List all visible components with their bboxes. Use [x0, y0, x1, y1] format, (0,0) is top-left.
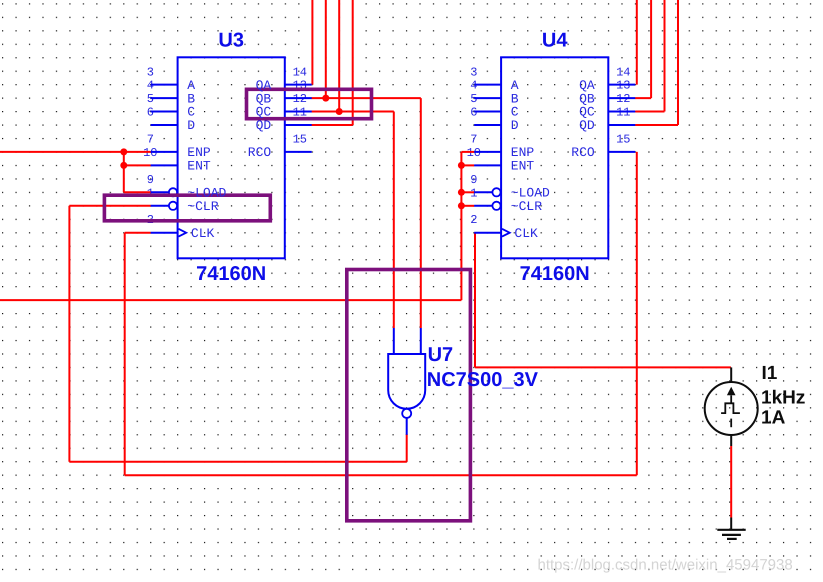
U4 pin name label A — [511, 78, 519, 93]
wire: U3 QC right and down to U7 NAND input A, branch up to top edge — [312, 0, 394, 328]
svg-text:7: 7 — [147, 133, 154, 147]
U3 active-low pin stub ~LOAD with inversion bubble — [151, 188, 177, 196]
U7 input pin B stub from U3 QB — [420, 328, 422, 354]
svg-text:14: 14 — [293, 65, 307, 79]
I1 dashed shaft segment — [730, 419, 732, 428]
svg-text:D: D — [187, 118, 195, 133]
U3 output pin stub QB — [285, 97, 312, 99]
svg-text:1kHz: 1kHz — [761, 388, 805, 409]
U4 input pin stub A — [474, 84, 501, 86]
U7 value label NC7S00_3V — [427, 369, 539, 391]
wire: left supply rail into U3 ENP (pin 10 row) — [0, 151, 151, 153]
U4 pin number 1 (left) — [470, 186, 477, 200]
U4 pin stub ENP — [474, 151, 501, 153]
svg-text:NC7S00_3V: NC7S00_3V — [427, 369, 539, 391]
U3 output pin stub QC — [285, 111, 312, 113]
U4 output pin stub QC — [608, 111, 635, 113]
svg-text:I1: I1 — [762, 363, 778, 384]
junction at U3 QB branch — [322, 95, 329, 102]
U4 pin name label RCO — [571, 145, 595, 160]
svg-text:~CLR: ~CLR — [511, 199, 542, 214]
svg-text:QD: QD — [256, 118, 272, 133]
U3 input pin stub D — [151, 124, 178, 126]
svg-text:ENT: ENT — [187, 159, 211, 174]
svg-text:ENT: ENT — [511, 159, 535, 174]
U4 pin name label ~CLR — [511, 199, 542, 214]
U3 pin name label QB — [256, 91, 272, 106]
U4 pin name label QB — [579, 91, 595, 106]
U4 pin number 13 (right) — [616, 79, 630, 93]
U3 pin name label C — [187, 105, 195, 120]
svg-text:U4: U4 — [542, 30, 568, 52]
U4 output pin stub RCO — [608, 151, 635, 153]
U4 reference designator label — [542, 30, 568, 52]
U4 pin name label ~LOAD — [511, 186, 550, 201]
svg-text:D: D — [511, 118, 519, 133]
U4 pin name label QC — [579, 105, 595, 120]
U4 output pin stub QD — [608, 124, 635, 126]
U4 pin name label QA — [579, 78, 595, 93]
I1 reference designator label — [762, 363, 778, 384]
svg-text:RCO: RCO — [571, 145, 595, 160]
U3 CLK pin stub with clock edge triangle — [151, 229, 187, 237]
U4 pin number 12 (right) — [616, 92, 630, 106]
U3 pin number 10 (left) — [143, 146, 157, 160]
wire: U3 QD up to top edge — [312, 0, 353, 125]
U4 pin number 3 (left) — [470, 65, 477, 79]
U3 pin number 7 (left) — [147, 133, 154, 147]
wire: U4 QD up to top edge — [635, 0, 678, 125]
svg-text:7: 7 — [470, 133, 477, 147]
junction at U4 ~LOAD branch — [458, 189, 465, 196]
U4 pin name label B — [511, 91, 519, 106]
U4 pin number 4 (left) — [470, 79, 477, 93]
U3 pin number 2 (left) — [147, 213, 154, 227]
U3 pin name label QA — [256, 78, 272, 93]
U4 pin number 7 (left) — [470, 133, 477, 147]
svg-text:14: 14 — [616, 65, 630, 79]
U3 pin number 9 (left) — [147, 173, 154, 187]
junction at U4 ENT branch — [458, 162, 465, 169]
U4 input pin stub D — [474, 124, 501, 126]
U3 pin name label B — [187, 91, 195, 106]
watermark text — [538, 557, 793, 574]
U4 pin number 5 (left) — [470, 92, 477, 106]
svg-text:~CLR: ~CLR — [187, 199, 218, 214]
U4 output pin stub QB — [608, 97, 635, 99]
svg-text:RCO: RCO — [248, 145, 272, 160]
U4 output pin stub QA — [608, 84, 635, 86]
U3 pin number 15 (right) — [293, 133, 307, 147]
U4 input pin stub C — [474, 111, 501, 113]
wire: branch into U3 ~LOAD — [124, 191, 151, 193]
svg-text:15: 15 — [293, 133, 307, 147]
wire: branch into U3 ENT — [124, 164, 151, 166]
U4 pin number 2 (left) — [470, 213, 477, 227]
U3 pin name label CLK — [191, 226, 215, 241]
svg-text:CLK: CLK — [514, 226, 538, 241]
wire: U3 QB right and down to U7 NAND input B, branch up to top edge — [312, 0, 421, 328]
wire: U3 QA up to top edge — [311, 0, 313, 85]
U4 pin number 9 (left) — [470, 173, 477, 187]
junction at U3 ENP branch — [120, 148, 127, 155]
wire: I1 bottom terminal to ground — [730, 446, 732, 518]
U7 reference designator label — [428, 344, 454, 366]
current source I1 circle body — [705, 382, 758, 435]
U3 active-low pin stub ~CLR with inversion bubble — [151, 202, 177, 210]
IC U3 74160N body outline — [178, 57, 285, 258]
U3 pin name label D — [187, 118, 195, 133]
svg-text:74160N: 74160N — [520, 263, 590, 285]
U3 pin number 3 (left) — [147, 65, 154, 79]
svg-text:U7: U7 — [428, 344, 454, 366]
svg-text:QD: QD — [579, 118, 595, 133]
svg-text:https://blog.csdn.net/weixin_4: https://blog.csdn.net/weixin_45947938 — [538, 557, 793, 574]
U3 pin number 13 (right) — [293, 79, 307, 93]
U3 pin name label ENT — [187, 159, 211, 174]
U3 input pin stub A — [151, 84, 178, 86]
U4 active-low pin stub ~LOAD with inversion bubble — [474, 188, 500, 196]
svg-text:U3: U3 — [218, 30, 244, 52]
U3 input pin stub B — [151, 97, 178, 99]
U4 pin name label C — [511, 105, 519, 120]
svg-text:1A: 1A — [761, 407, 786, 428]
junction at U3 ENT branch — [120, 162, 127, 169]
wire: U4 QA up to top edge — [636, 0, 638, 85]
I1 value label 1A — [761, 407, 786, 428]
U7 input pin A stub from U3 QC — [393, 328, 395, 354]
selection box around NAND gate U7 — [347, 270, 471, 521]
U4 pin number 15 (right) — [616, 133, 630, 147]
wire: U4 RCO down-left-up into U3 CLK — [125, 152, 637, 475]
U4 CLK pin stub with clock edge triangle — [474, 229, 510, 237]
IC U4 74160N body outline — [501, 57, 608, 258]
wire: U7 NAND output feedback into U3 ~CLR — [69, 206, 406, 462]
U4 pin name label CLK — [514, 226, 538, 241]
U3 pin number 5 (left) — [147, 92, 154, 106]
U4 pin name label QD — [579, 118, 595, 133]
wire: clock net from I1 to U4 CLK — [475, 233, 731, 368]
svg-text:3: 3 — [147, 65, 154, 79]
U4 pin name label D — [511, 118, 519, 133]
selection box around U3 QB/QC output pins — [247, 89, 372, 118]
svg-text:9: 9 — [470, 173, 477, 187]
U3 pin number 11 (right) — [293, 106, 307, 120]
U4 pin name label ENT — [511, 159, 535, 174]
U3 pin name label A — [187, 78, 195, 93]
wire: vertical branch x=123.8 from U3 ENP row down to U3 ~LOAD row — [123, 152, 125, 192]
svg-text:74160N: 74160N — [196, 263, 266, 285]
U3 pin name label RCO — [248, 145, 272, 160]
I1 current direction arrow — [727, 387, 736, 403]
U7 output pin stub — [406, 418, 408, 435]
U7 output inversion bubble — [402, 409, 411, 418]
U3 output pin stub QD — [285, 124, 312, 126]
U4 pin stub ENT — [474, 164, 501, 166]
U4 pin name label ENP — [511, 145, 535, 160]
U4 input pin stub B — [474, 97, 501, 99]
U3 input pin stub C — [151, 111, 178, 113]
wire: U4 QC up to top edge — [635, 0, 664, 112]
svg-text:3: 3 — [470, 65, 477, 79]
U3 pin number 4 (left) — [147, 79, 154, 93]
junction at U4 ~CLR branch — [458, 202, 465, 209]
U3 pin name label ~LOAD — [187, 186, 226, 201]
U3 value label 74160N — [196, 263, 266, 285]
U3 pin stub ENP — [151, 151, 178, 153]
wire: left rail y=300 feeding U4 ENP ENT ~LOAD ~CLR — [0, 152, 474, 300]
U3 pin name label ~CLR — [187, 199, 218, 214]
svg-text:9: 9 — [147, 173, 154, 187]
U4 pin number 6 (left) — [470, 106, 477, 120]
svg-text:2: 2 — [470, 213, 477, 227]
svg-text:CLK: CLK — [191, 226, 215, 241]
junction at U3 QC branch — [336, 108, 343, 115]
U3 pin name label QC — [256, 105, 272, 120]
U3 output pin stub RCO — [285, 151, 312, 153]
current source I1 bottom lead — [730, 435, 732, 446]
ground symbol below I1 — [717, 518, 745, 539]
I1 value label 1kHz — [761, 388, 805, 409]
U4 pin number 11 (right) — [616, 106, 630, 120]
U3 pin number 12 (right) — [293, 92, 307, 106]
I1 square-wave pulse glyph — [721, 403, 740, 413]
selection box around U3 ~CLR pin row — [104, 195, 270, 221]
U4 active-low pin stub ~CLR with inversion bubble — [474, 202, 500, 210]
U4 pin number 14 (right) — [616, 65, 630, 79]
U4 pin number 10 (left) — [467, 146, 481, 160]
U3 reference designator label — [218, 30, 244, 52]
U3 pin name label QD — [256, 118, 272, 133]
U3 output pin stub QA — [285, 84, 312, 86]
svg-text:15: 15 — [616, 133, 630, 147]
current source I1 top lead — [730, 367, 732, 382]
U3 pin number 14 (right) — [293, 65, 307, 79]
U3 pin number 1 (left) — [147, 186, 154, 200]
U3 pin number 6 (left) — [147, 106, 154, 120]
wire: U4 QB up to top edge — [635, 0, 651, 98]
U4 value label 74160N — [520, 263, 590, 285]
NAND gate U7 NC7S00_3V body (inputs top, output bottom) — [388, 354, 425, 409]
U3 pin name label ENP — [187, 145, 211, 160]
U3 pin stub ENT — [151, 164, 178, 166]
